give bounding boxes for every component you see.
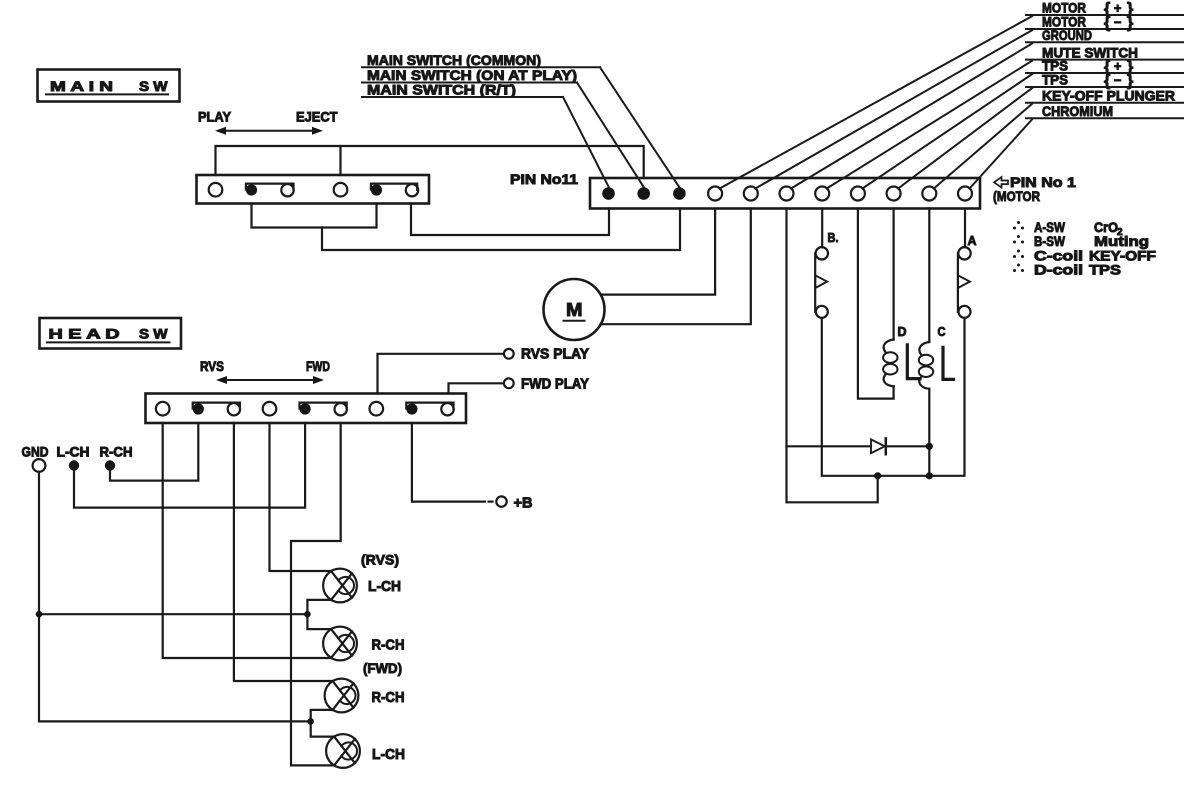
terminal FWD PLAY	[504, 378, 514, 388]
svg-text:M: M	[566, 300, 583, 320]
svg-text:CHROMIUM: CHROMIUM	[1042, 103, 1113, 119]
svg-text:RVS PLAY: RVS PLAY	[521, 347, 589, 363]
wire underline MOTOR	[1026, 28, 1183, 30]
svg-text:A: A	[968, 233, 978, 248]
wire S2 pin8 to +B	[412, 423, 485, 502]
wire J1 pin6 ground drop	[787, 209, 878, 503]
svg-text:L-CH: L-CH	[372, 746, 405, 763]
S2 pin 2 (common)	[193, 403, 204, 414]
svg-text:MAIN SWITCH (R/T): MAIN SWITCH (R/T)	[367, 82, 516, 98]
wire underline KEY-OFF PLUNGER	[1026, 102, 1183, 104]
S1 wiper arm 2-3	[246, 184, 294, 190]
J1 pin 8 (open)	[708, 187, 722, 201]
svg-text:FWD PLAY: FWD PLAY	[521, 377, 589, 393]
terminal L-CH	[69, 460, 79, 470]
svg-text:TPS: TPS	[1042, 72, 1068, 88]
svg-text:S W: S W	[139, 327, 168, 342]
S2 pin 1 (open)	[156, 402, 170, 416]
wire S1 U bracket pins 2-5	[252, 204, 377, 228]
terminal +B	[496, 496, 506, 506]
svg-text:M A I N: M A I N	[50, 79, 113, 94]
S2 pin 8 (common)	[406, 403, 417, 414]
wire GND branch to RVS heads	[39, 613, 307, 615]
S2 wiper arm 1	[193, 403, 240, 409]
terminal RVS PLAY	[504, 349, 514, 359]
junction dot head3-head4 GND	[307, 718, 314, 725]
S1 contact pin (common) 5	[371, 184, 382, 195]
wire S1 pin4 top stub	[339, 146, 341, 175]
J1 pin 10 (filled)	[637, 187, 650, 200]
wire head1 to head2 link	[307, 600, 331, 629]
wire underline MAIN SWITCH (R/T)	[362, 96, 563, 98]
svg-text:H E A D: H E A D	[49, 327, 120, 342]
svg-text:PLAY: PLAY	[198, 109, 232, 125]
wire diagonal J1 pin to KEY-OFF PLUNGER	[934, 104, 1032, 189]
note A-SW CrO	[1017, 221, 1020, 224]
note C-coil KEY-OFF	[1017, 250, 1020, 253]
terminal GND	[33, 459, 46, 472]
wire diagonal MAIN SWITCH (R/T) to connector	[563, 97, 609, 188]
wire L-CH to S2 pin5	[74, 423, 305, 508]
S2 pin 9 (hook)	[441, 403, 453, 415]
wire J1 pin1 to A switch	[964, 209, 966, 248]
wire S1 top bracket to connector pin10	[216, 146, 644, 178]
wire R-CH to S2 pin2	[110, 423, 198, 481]
wire diode cathode	[886, 445, 931, 447]
wire underline MOTOR	[1026, 14, 1183, 16]
label PIN No 1 arrow	[994, 177, 1008, 188]
wire diode anode	[787, 445, 872, 447]
J1 pin 11 (filled)	[602, 187, 615, 200]
switch B bottom contact	[816, 306, 828, 318]
J1 pin 2 (open)	[922, 187, 936, 201]
J1 pin 4 (open)	[851, 187, 865, 201]
svg-text:+: +	[1114, 60, 1121, 74]
wire underline CHROMIUM	[1026, 117, 1183, 119]
junction dot head1-head2 GND	[304, 611, 311, 618]
J1 pin 9 (filled)	[673, 187, 686, 200]
J1 pin 3 (open)	[887, 187, 901, 201]
wire +B tick	[489, 501, 493, 503]
J1 pin 6 (open)	[780, 187, 794, 201]
svg-text:GROUND: GROUND	[1042, 27, 1092, 43]
wire underline MAIN SWITCH (COMMON)	[362, 66, 600, 68]
S1 contact pin (hook) 3	[281, 184, 293, 196]
svg-text:FWD: FWD	[306, 358, 330, 374]
wire tap to connector pin9	[322, 209, 680, 251]
label HEAD SW title box	[40, 318, 182, 349]
note B-SW Muting	[1017, 235, 1020, 238]
J1 pin 5 (open)	[815, 187, 829, 201]
wire underline TPS	[1026, 86, 1183, 88]
wire S1 pin6 to connector pin11	[411, 204, 609, 236]
note D-coil TPS	[1017, 264, 1020, 267]
svg-text:+: +	[1114, 2, 1121, 16]
svg-text:+B: +B	[514, 496, 533, 512]
svg-text:S W: S W	[139, 79, 168, 94]
wire diagonal J1 pin to TPS	[898, 88, 1032, 188]
wire S2 pin9 to FWD PLAY	[449, 383, 504, 393]
wire underline TPS	[1026, 72, 1183, 74]
svg-text:−: −	[1114, 16, 1121, 30]
switch A top contact	[958, 247, 970, 259]
motor M1 body	[544, 279, 605, 340]
wire diagonal J1 pin to MUTE SWITCH	[827, 61, 1032, 189]
coil D core	[907, 345, 920, 379]
switch B actuator triangle	[815, 275, 827, 288]
wire C coil bottom to bracket	[928, 389, 930, 476]
wire S2 pin1 to head2	[163, 423, 332, 658]
tape head RVS L-CH	[323, 569, 357, 603]
svg-text:L-CH: L-CH	[57, 444, 90, 460]
svg-text:(RVS): (RVS)	[361, 552, 399, 568]
S1 contact pin (common) 2	[246, 184, 257, 195]
S1 contact pin (open) 4	[334, 183, 348, 197]
svg-text:D: D	[898, 324, 907, 339]
wire S2 pin7 to RVS PLAY	[378, 354, 504, 394]
tape head FWD L-CH	[326, 734, 360, 768]
svg-text:D-coil: D-coil	[1034, 262, 1083, 278]
svg-text:C: C	[938, 324, 947, 339]
main switch S1 body	[197, 175, 430, 204]
svg-text:R-CH: R-CH	[372, 689, 405, 706]
wire S2 pin6 to head4	[291, 423, 341, 765]
S2 pin 5 (common)	[300, 403, 311, 414]
switch B top contact	[816, 247, 828, 259]
wire underline MUTE SWITCH	[1026, 59, 1183, 61]
junction dot diode-Ccoil	[926, 443, 933, 450]
svg-text:R-CH: R-CH	[372, 637, 405, 654]
wire J1 pin2 to C coil	[928, 209, 930, 343]
wire GND bus	[39, 472, 311, 722]
switch A bottom contact	[959, 306, 971, 318]
tape head FWD R-CH	[325, 679, 359, 713]
arrow PLAY-EJECT	[219, 130, 319, 132]
wire diagonal J1 pin to TPS	[862, 74, 1032, 188]
wire underline MAIN SWITCH (ON AT PLAY)	[362, 82, 577, 84]
wire D coil bottom to J1 pin4	[858, 209, 894, 399]
svg-text:GND: GND	[22, 444, 49, 460]
wire diagonal J1 pin to MOTOR	[720, 16, 1032, 188]
svg-text:−: −	[1114, 74, 1121, 88]
J1 pin 1 (open)	[958, 187, 972, 201]
svg-text:L-CH: L-CH	[368, 578, 401, 595]
svg-text:B.: B.	[828, 230, 839, 245]
wire J1 pin5 to B switch	[821, 209, 823, 248]
wire S2 pin3 to head3	[234, 423, 333, 681]
coil D winding	[884, 340, 894, 352]
svg-text:TPS: TPS	[1089, 262, 1121, 278]
wire S2 pin4 to head1	[270, 423, 332, 571]
terminal R-CH	[105, 460, 115, 470]
svg-text:PIN No11: PIN No11	[510, 171, 578, 187]
junction dot Ccoil-bracket	[926, 472, 933, 479]
S1 contact pin (open) 1	[209, 183, 223, 197]
coil C core	[943, 347, 954, 379]
wire underline GROUND	[1026, 41, 1183, 43]
svg-text:(FWD): (FWD)	[363, 660, 402, 676]
J1 pin 7 (open)	[744, 187, 758, 201]
svg-text:R-CH: R-CH	[100, 444, 133, 460]
wire diagonal J1 pin to MOTOR	[755, 30, 1032, 188]
label MAIN SW title box	[38, 70, 180, 102]
wire B-A bottom bracket	[822, 318, 965, 476]
svg-text:EJECT: EJECT	[296, 109, 338, 125]
wire motor(-) to J1 pin7	[601, 209, 751, 325]
tape head RVS R-CH	[323, 627, 357, 661]
head switch S2 body	[146, 394, 467, 424]
wire diagonal MAIN SWITCH (COMMON) to connector	[600, 67, 680, 187]
switch B blade	[814, 253, 816, 311]
wire diagonal J1 pin to GROUND	[791, 44, 1032, 189]
S2 wiper arm 3	[406, 403, 453, 409]
S1 contact pin (hook) 6	[406, 184, 418, 196]
arrow RVS-FWD	[220, 379, 320, 381]
connector J1 body	[590, 178, 980, 209]
wire diagonal MAIN SWITCH (ON AT PLAY) to connector	[577, 83, 644, 188]
switch A actuator triangle	[958, 275, 970, 288]
wire J1 pin3 to D coil	[892, 209, 894, 340]
junction dot ground-bracket	[874, 472, 881, 479]
switch A blade	[957, 253, 959, 311]
S2 wiper arm 2	[300, 403, 347, 409]
wire motor(+) to J1 pin8	[601, 209, 715, 295]
wire head3 to head4 link	[311, 710, 335, 737]
diode D1	[871, 439, 885, 453]
wire diagonal J1 pin to CHROMIUM	[970, 120, 1033, 189]
svg-text:KEY-OFF PLUNGER: KEY-OFF PLUNGER	[1042, 87, 1175, 103]
S2 pin 6 (hook)	[335, 403, 347, 415]
S2 pin 4 (open)	[263, 402, 277, 416]
S2 pin 7 (open)	[370, 402, 384, 416]
S2 pin 3 (hook)	[228, 403, 240, 415]
svg-text:RVS: RVS	[200, 358, 224, 374]
svg-text:(MOTOR: (MOTOR	[993, 188, 1040, 204]
coil C winding	[919, 342, 929, 354]
S1 wiper arm 5-6	[371, 184, 417, 190]
junction dot GND branch	[36, 611, 43, 618]
svg-text:MAIN SWITCH (COMMON): MAIN SWITCH (COMMON)	[367, 52, 541, 68]
